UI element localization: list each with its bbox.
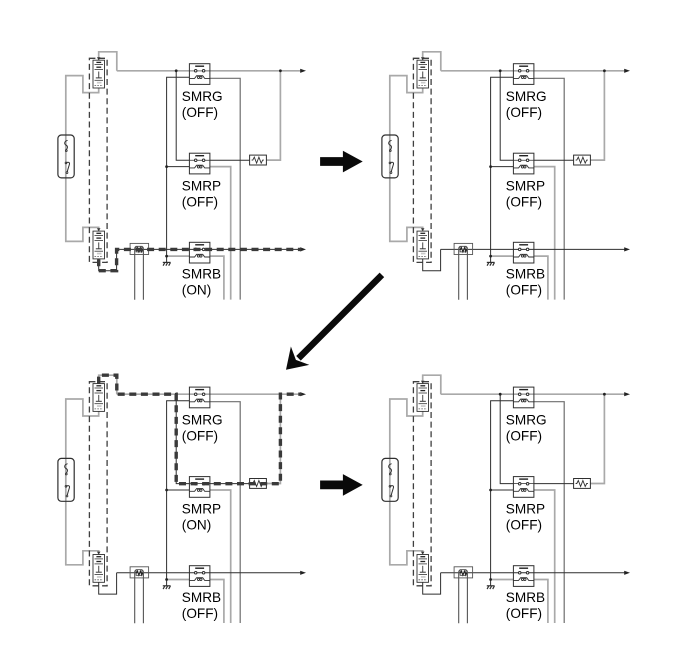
svg-text:(OFF): (OFF) bbox=[506, 283, 542, 298]
svg-text:(OFF): (OFF) bbox=[506, 194, 542, 209]
svg-text:(OFF): (OFF) bbox=[506, 518, 542, 533]
svg-text:(ON): (ON) bbox=[182, 283, 211, 298]
svg-text:(OFF): (OFF) bbox=[182, 606, 218, 621]
svg-text:(ON): (ON) bbox=[182, 518, 211, 533]
svg-text:(OFF): (OFF) bbox=[182, 194, 218, 209]
svg-text:(OFF): (OFF) bbox=[506, 606, 542, 621]
